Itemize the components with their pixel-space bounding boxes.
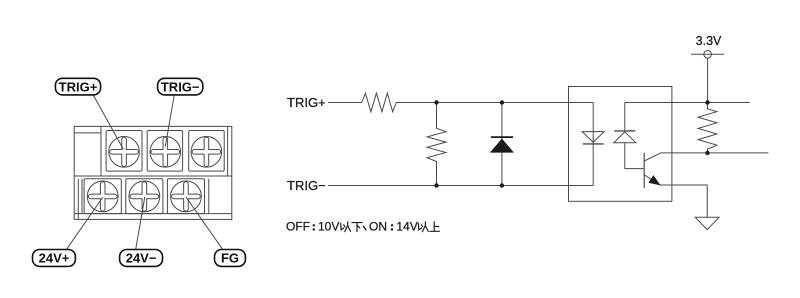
svg-text:ON: ON — [369, 219, 387, 233]
ground — [695, 217, 719, 229]
wire emitter to ground — [660, 185, 707, 217]
resistor R2 — [427, 103, 446, 186]
terminal cell bottom 3 — [167, 179, 204, 214]
svg-text:TRIG+: TRIG+ — [59, 79, 98, 94]
label box FG — [215, 250, 246, 267]
leader line TRIG- — [165, 95, 174, 146]
terminal block top-right inner edge — [227, 126, 229, 176]
threshold note OFF:10V ON:14V — [286, 219, 439, 233]
terminal block bottom-left strips — [78, 179, 82, 214]
label box TRIG+ — [55, 78, 100, 95]
svg-text:FG: FG — [221, 251, 239, 266]
junction TRIG- / D1 — [500, 183, 504, 187]
leader line 24V- — [136, 197, 145, 249]
svg-text:3.3V: 3.3V — [696, 34, 722, 48]
label box TRIG- — [158, 78, 203, 95]
diode D1 — [490, 103, 514, 186]
wire TRIG+ input — [328, 102, 362, 104]
screw 24V+ — [87, 181, 118, 212]
terminal block base strip — [74, 214, 232, 220]
leader line TRIG+ — [93, 95, 123, 149]
svg-text:24V−: 24V− — [126, 251, 157, 266]
screw TRIG+ — [109, 137, 140, 168]
terminal block top-left empty slot — [74, 126, 101, 176]
svg-text:TRIG−: TRIG− — [161, 79, 200, 94]
svg-text:24V+: 24V+ — [39, 251, 70, 266]
terminal block row divider — [74, 175, 232, 177]
junction TRIG+ / D1 — [500, 100, 504, 104]
leader line 24V+ — [67, 197, 103, 249]
wire TRIG+ rail — [396, 102, 593, 104]
supply 3.3V terminal — [691, 51, 724, 103]
resistor R1 — [362, 93, 397, 112]
svg-text:TRIG−: TRIG− — [287, 178, 326, 193]
leader line FG — [186, 197, 223, 249]
wire collector rail — [661, 152, 769, 154]
terminal block outer body — [74, 126, 232, 219]
screw spare top — [191, 137, 222, 168]
svg-text:TRIG+: TRIG+ — [287, 95, 326, 110]
junction TRIG+ / R2 — [434, 100, 438, 104]
transistor Q1 — [644, 153, 661, 188]
terminal cell top 3 — [189, 131, 225, 172]
screw TRIG- — [150, 137, 181, 168]
junction collector rail / R3 — [705, 151, 709, 155]
junction 3.3V rail / R3 — [705, 100, 709, 104]
svg-text:10V: 10V — [318, 219, 339, 233]
label box 24V- — [120, 250, 163, 267]
screw 24V- — [129, 181, 160, 212]
terminal block bottom-right strip — [208, 179, 210, 214]
label box 24V+ — [33, 250, 76, 267]
photocoupler photodiode — [614, 103, 644, 169]
resistor R3 — [698, 103, 717, 153]
wire TRIG- rail — [328, 185, 593, 187]
wire photodiode to 3.3V rail — [625, 102, 750, 104]
photocoupler PC1 body — [569, 87, 672, 202]
svg-text:OFF: OFF — [286, 219, 310, 233]
screw FG — [171, 181, 202, 212]
terminal cell bottom 1 — [84, 179, 121, 214]
photocoupler LED — [582, 103, 604, 186]
junction TRIG- / R2 — [434, 183, 438, 187]
svg-text:14V: 14V — [396, 219, 417, 233]
terminal cell top 1 — [106, 131, 142, 172]
terminal cell bottom 2 — [126, 179, 163, 214]
terminal cell top 2 — [147, 131, 182, 172]
